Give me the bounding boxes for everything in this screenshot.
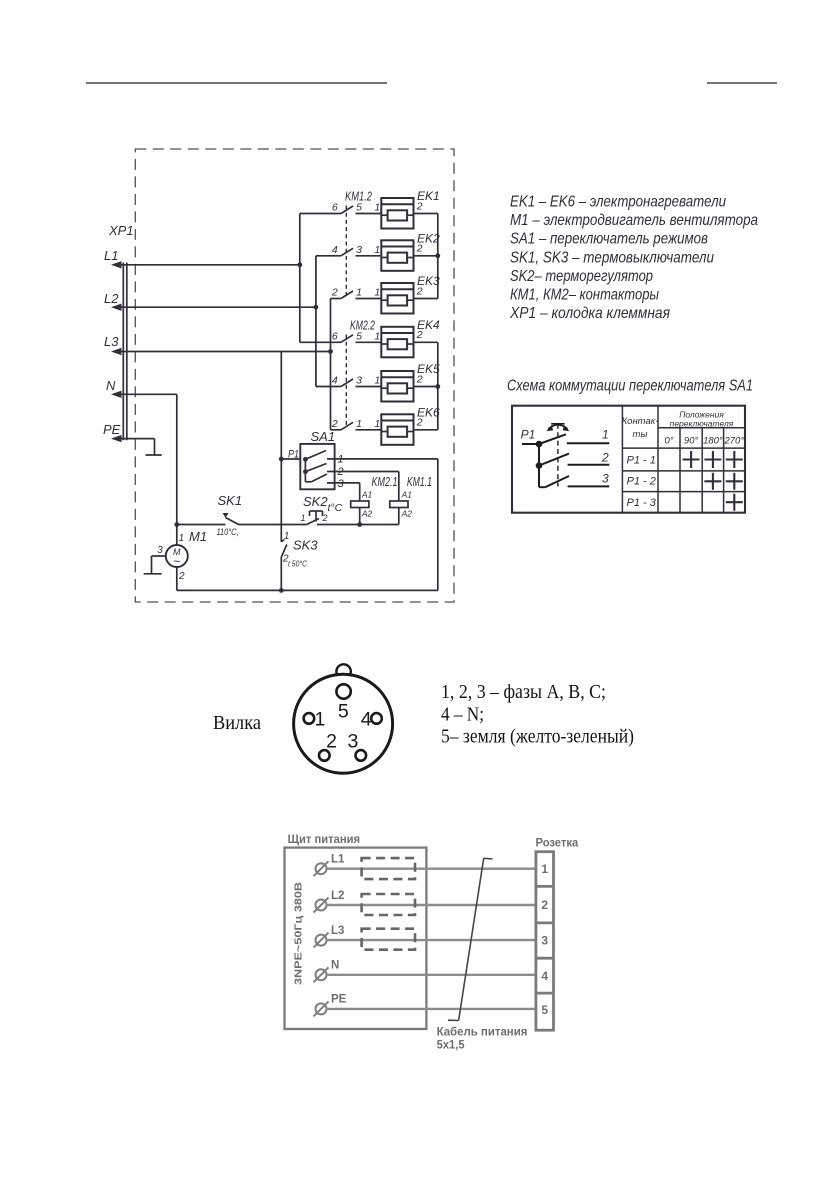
svg-text:6: 6 (332, 202, 338, 214)
svg-text:110°С,: 110°С, (217, 527, 239, 538)
svg-text:L3: L3 (104, 334, 119, 349)
svg-text:A2: A2 (361, 509, 373, 519)
svg-text:t 50°С: t 50°С (288, 560, 307, 569)
svg-text:2: 2 (337, 466, 344, 478)
svg-text:PE: PE (331, 994, 347, 1006)
svg-text:1: 1 (179, 533, 185, 544)
svg-text:6: 6 (332, 330, 338, 342)
svg-text:2: 2 (326, 731, 337, 753)
svg-text:1: 1 (374, 202, 380, 214)
svg-text:3: 3 (347, 731, 358, 753)
svg-text:4: 4 (541, 969, 548, 983)
svg-text:2: 2 (322, 513, 328, 523)
svg-text:SK1, SK3 – термовыключатели: SK1, SK3 – термовыключатели (510, 249, 714, 266)
svg-text:3NPE~50Гц 380В: 3NPE~50Гц 380В (293, 882, 305, 985)
svg-text:5: 5 (541, 1003, 548, 1017)
svg-text:270°: 270° (723, 436, 744, 447)
svg-text:1: 1 (338, 454, 344, 466)
svg-text:3: 3 (338, 478, 345, 490)
svg-text:1, 2, 3 – фазы А, В, С;: 1, 2, 3 – фазы А, В, С; (441, 681, 606, 703)
svg-text:Р1 - 1: Р1 - 1 (627, 455, 656, 467)
svg-text:5: 5 (338, 701, 349, 723)
svg-text:SA1 – переключатель режимов: SA1 – переключатель режимов (510, 231, 708, 248)
svg-text:4 – N;: 4 – N; (441, 704, 484, 726)
svg-text:L3: L3 (331, 925, 344, 937)
svg-text:XP1: XP1 (108, 223, 134, 238)
svg-text:KM2.2: KM2.2 (350, 318, 376, 333)
svg-text:Вилка: Вилка (213, 712, 261, 734)
svg-text:SA1: SA1 (311, 429, 336, 444)
svg-text:P1: P1 (288, 449, 299, 461)
svg-text:1: 1 (374, 244, 380, 256)
svg-text:3: 3 (356, 244, 362, 256)
svg-text:A1: A1 (401, 490, 413, 500)
svg-text:SK3: SK3 (293, 538, 318, 553)
svg-text:XP1 – колодка клеммная: XP1 – колодка клеммная (509, 305, 670, 322)
svg-text:~: ~ (173, 555, 180, 569)
svg-text:90°: 90° (684, 436, 699, 447)
svg-text:3: 3 (157, 545, 163, 556)
svg-text:3: 3 (602, 472, 609, 486)
svg-text:L1: L1 (104, 248, 118, 263)
svg-text:1: 1 (374, 375, 380, 387)
svg-text:2: 2 (331, 287, 338, 299)
svg-text:SK1: SK1 (218, 493, 243, 508)
svg-text:Кабель питания: Кабель питания (437, 1027, 528, 1039)
svg-text:1: 1 (301, 513, 306, 523)
svg-text:Контак-: Контак- (622, 416, 659, 427)
svg-text:L2: L2 (104, 291, 119, 306)
svg-text:1: 1 (374, 418, 380, 430)
svg-text:1: 1 (541, 862, 548, 876)
svg-text:Р1 - 3: Р1 - 3 (627, 497, 657, 509)
svg-text:1: 1 (356, 287, 362, 299)
svg-text:4: 4 (361, 709, 372, 731)
svg-text:Розетка: Розетка (536, 838, 579, 850)
svg-text:2: 2 (416, 243, 423, 255)
svg-text:1: 1 (374, 287, 380, 299)
svg-text:KM1.1: KM1.1 (407, 475, 432, 489)
svg-text:180°: 180° (703, 436, 723, 447)
svg-text:N: N (331, 960, 339, 972)
svg-text:M1: M1 (189, 529, 207, 544)
svg-text:2: 2 (416, 373, 423, 385)
svg-text:1: 1 (284, 531, 290, 542)
svg-text:2: 2 (416, 200, 423, 212)
svg-text:1: 1 (356, 418, 362, 430)
svg-text:A1: A1 (361, 490, 373, 500)
svg-text:Р1 - 2: Р1 - 2 (627, 476, 656, 488)
svg-text:KM2.1: KM2.1 (372, 475, 398, 489)
svg-text:3: 3 (541, 934, 548, 948)
svg-text:2: 2 (178, 571, 185, 582)
svg-text:1: 1 (374, 330, 380, 342)
svg-text:1: 1 (315, 709, 326, 731)
svg-text:PE: PE (103, 422, 121, 437)
svg-text:KM1.2: KM1.2 (345, 189, 373, 204)
svg-text:переключателя: переключателя (670, 419, 734, 429)
svg-text:Схема коммутации переключателя: Схема коммутации переключателя SA1 (507, 378, 753, 395)
svg-text:ты: ты (633, 429, 648, 440)
svg-text:5х1,5: 5х1,5 (437, 1040, 466, 1052)
svg-text:N: N (106, 378, 116, 393)
svg-text:2: 2 (416, 329, 423, 341)
svg-text:0°: 0° (664, 436, 673, 447)
svg-text:3: 3 (356, 375, 362, 387)
svg-text:2: 2 (541, 898, 548, 912)
svg-text:t°С: t°С (328, 502, 343, 514)
svg-text:КМ1, КМ2– контакторы: КМ1, КМ2– контакторы (510, 287, 659, 304)
svg-text:P1: P1 (521, 428, 536, 442)
svg-text:SK2: SK2 (303, 494, 328, 509)
svg-text:SK2– терморегулятор: SK2– терморегулятор (510, 268, 653, 285)
svg-text:4: 4 (332, 244, 338, 256)
svg-text:A2: A2 (401, 509, 413, 519)
svg-text:2: 2 (416, 417, 423, 429)
svg-text:L2: L2 (331, 890, 344, 902)
svg-text:1: 1 (602, 428, 609, 442)
svg-text:EK1 – EK6 – электронагреватели: EK1 – EK6 – электронагреватели (510, 194, 726, 211)
svg-text:2: 2 (601, 451, 609, 465)
svg-text:L1: L1 (331, 854, 345, 866)
svg-text:Щит питания: Щит питания (288, 834, 360, 846)
svg-text:4: 4 (332, 375, 338, 387)
svg-text:2: 2 (331, 418, 338, 430)
svg-text:5– земля (желто-зеленый): 5– земля (желто-зеленый) (441, 726, 634, 748)
svg-text:M1 – электродвигатель вентилят: M1 – электродвигатель вентилятора (510, 212, 758, 229)
svg-text:2: 2 (416, 285, 423, 297)
